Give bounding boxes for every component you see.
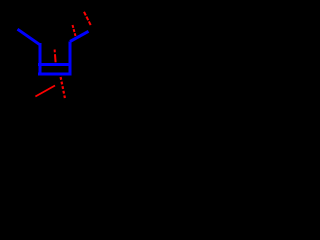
bond (blue) right vertical [69,42,72,76]
bond (dark) bottom-right [67,105,83,120]
bond (dark) bottom-left steep [0,73,5,120]
bond (red solid) D bottom-left [35,86,55,97]
bond (blue) left vertical [39,43,42,76]
partial bond (red dashed) A top-right [84,12,91,26]
bond (blue) right diagonal [70,31,89,41]
bond (blue) left diagonal [18,29,41,45]
background [0,0,107,120]
bond (blue) box bottom horizontal [38,73,72,76]
bond (dark) top-left stub [1,2,8,10]
chemistry transition-state diagram, 107x120 [0,0,107,120]
partial bond (red dashed) B [73,25,76,36]
partial bond (red dashed) C below box [61,77,65,98]
bond (dark) top-center diagonal [28,2,50,25]
bond (blue) box top horizontal [38,63,72,66]
partial bond (red dashed) G center [55,50,56,63]
